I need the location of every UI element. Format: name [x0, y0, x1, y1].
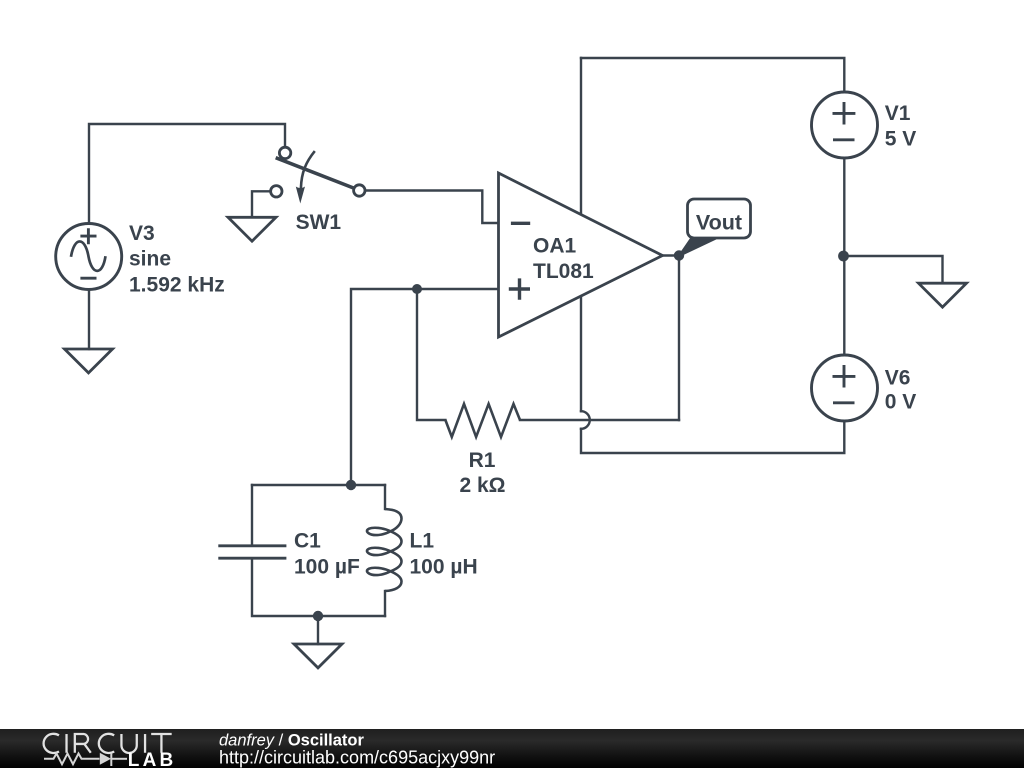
svg-text:0 V: 0 V: [885, 391, 917, 414]
svg-text:V3: V3: [129, 222, 155, 245]
svg-text:OA1: OA1: [533, 234, 577, 257]
svg-text:100 µH: 100 µH: [410, 556, 478, 579]
svg-text:LAB: LAB: [128, 750, 177, 768]
svg-text:2 kΩ: 2 kΩ: [459, 474, 505, 497]
svg-text:100 µF: 100 µF: [294, 556, 360, 579]
svg-text:C1: C1: [294, 530, 321, 553]
svg-text:TL081: TL081: [533, 260, 594, 283]
svg-text:L1: L1: [410, 530, 435, 553]
svg-text:V6: V6: [885, 366, 911, 389]
svg-text:Vout: Vout: [696, 211, 742, 235]
svg-text:1.592 kHz: 1.592 kHz: [129, 273, 225, 296]
svg-text:5 V: 5 V: [885, 127, 917, 150]
svg-text:SW1: SW1: [296, 211, 342, 234]
svg-text:R1: R1: [469, 449, 496, 472]
svg-text:V1: V1: [885, 102, 911, 125]
svg-text:sine: sine: [129, 248, 171, 271]
svg-text:http://circuitlab.com/c695acjx: http://circuitlab.com/c695acjxy99nr: [219, 748, 495, 768]
